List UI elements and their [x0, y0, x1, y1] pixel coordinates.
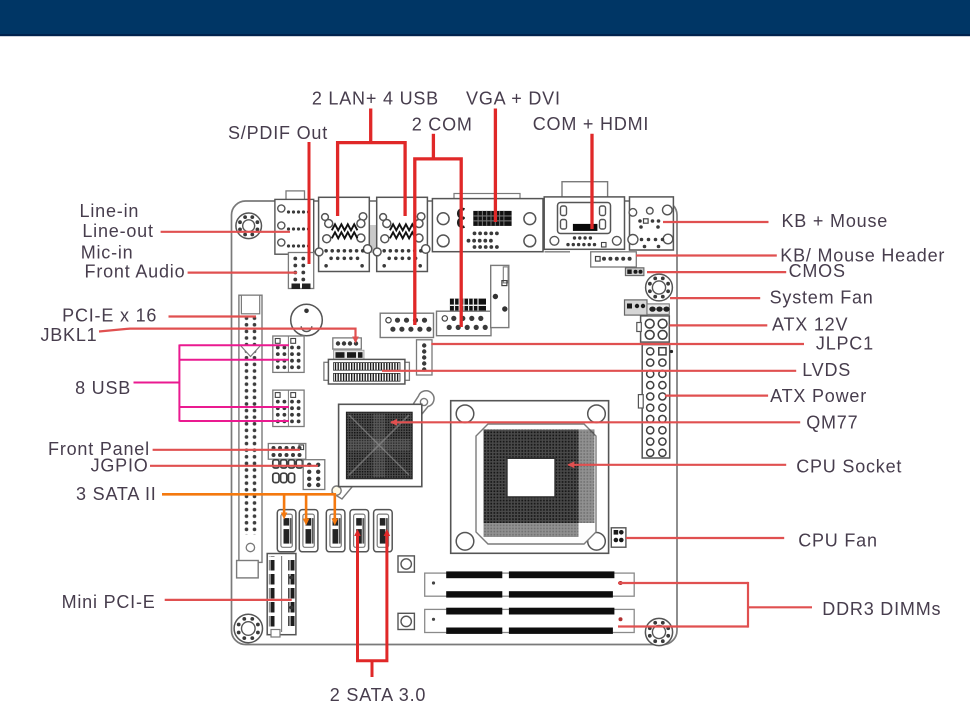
- leader: System Fan: [670, 297, 760, 299]
- mini PCI-E slot: [267, 554, 296, 638]
- svg-text:2 LAN+ 4 USB: 2 LAN+ 4 USB: [312, 89, 439, 109]
- leader: 8 USB bracket: [134, 382, 180, 384]
- SATA port 5: [374, 510, 393, 552]
- COM1 header: [380, 313, 433, 337]
- COM+HDMI connector: [544, 182, 624, 250]
- CPU fan header: [611, 528, 626, 547]
- SATA port 2: [299, 510, 318, 552]
- leader: VGA + DVI: [494, 109, 497, 223]
- LAN+USB divider: [370, 225, 377, 253]
- CPU socket: [451, 401, 609, 554]
- svg-text:ATX Power: ATX Power: [770, 386, 867, 406]
- board outline: [232, 201, 678, 645]
- svg-text:JGPIO: JGPIO: [91, 455, 149, 475]
- PCI-E x16 slot: [237, 295, 262, 578]
- svg-text:8 USB: 8 USB: [75, 378, 131, 398]
- JLPC1 header: [417, 340, 433, 375]
- leader: COM + HDMI: [590, 134, 593, 229]
- leader: DDR3 DIMMs bracket: [618, 582, 748, 584]
- leader: S/PDIF Out: [308, 142, 311, 264]
- audio jack stack: [275, 191, 314, 254]
- leader: KB/ Mouse Header: [636, 254, 777, 256]
- leader: Front Audio: [188, 272, 297, 274]
- KB+Mouse connector: [628, 197, 674, 250]
- leader: Mini PCI-E: [165, 599, 292, 601]
- LAN+USB stack 1: [315, 197, 372, 271]
- svg-text:CPU Socket: CPU Socket: [796, 456, 902, 476]
- svg-text:LVDS: LVDS: [802, 360, 851, 380]
- leader: ATX 12V: [670, 324, 768, 326]
- leader: CPU Fan: [626, 537, 784, 539]
- DIMM slot 1: [425, 571, 635, 597]
- svg-text:KB + Mouse: KB + Mouse: [782, 211, 889, 231]
- svg-text:VGA + DVI: VGA + DVI: [466, 89, 561, 109]
- svg-text:COM + HDMI: COM + HDMI: [533, 114, 650, 134]
- QM77 chip: [332, 391, 434, 499]
- SATA port 3: [326, 510, 345, 552]
- header bar: [0, 0, 970, 36]
- svg-text:System Fan: System Fan: [770, 287, 874, 307]
- USB header pair 1: [273, 336, 304, 372]
- buzzer: [291, 304, 323, 336]
- mounting hole bottom-left: [234, 614, 262, 642]
- svg-text:3 SATA II: 3 SATA II: [76, 484, 157, 504]
- mounting hole top-left: [236, 213, 262, 239]
- leader: 3 SATA II: [162, 494, 335, 520]
- svg-text:Front Audio: Front Audio: [85, 262, 186, 282]
- VGA connector: [432, 194, 543, 252]
- JBKL1 header: [333, 338, 364, 360]
- front panel header: [268, 444, 306, 460]
- SATA port 4: [350, 510, 369, 552]
- leader: JLPC1: [431, 343, 804, 345]
- svg-text:JLPC1: JLPC1: [816, 333, 874, 353]
- vertical IC block: [491, 265, 509, 327]
- leader: KB + Mouse: [663, 221, 769, 223]
- svg-text:PCI-E x 16: PCI-E x 16: [62, 306, 157, 326]
- svg-text:Line-out: Line-out: [82, 221, 153, 241]
- leader: 2 COM bracket: [432, 134, 435, 159]
- leader: 2 SATA 3.0 bracket: [358, 534, 387, 661]
- svg-text:S/PDIF Out: S/PDIF Out: [228, 123, 328, 143]
- DIMM slot 2: [425, 608, 635, 634]
- SATA port 1: [277, 510, 296, 552]
- ATX power connector: [638, 345, 673, 458]
- leader: CPU Socket: [568, 464, 786, 466]
- leader: ATX Power: [665, 395, 768, 397]
- CMOS jumper: [625, 268, 644, 276]
- system fan header: [625, 300, 670, 315]
- mounting hole top-right: [646, 274, 673, 301]
- svg-text:CPU Fan: CPU Fan: [798, 530, 878, 550]
- svg-text:Line-in: Line-in: [80, 201, 140, 221]
- leader: LVDS: [382, 370, 796, 372]
- KB/Mouse header: [591, 252, 637, 267]
- COM2 header: [437, 299, 492, 336]
- leader: QM77: [391, 421, 800, 423]
- COM+HDMI foot: [545, 251, 571, 253]
- svg-text:CMOS: CMOS: [789, 261, 846, 281]
- svg-text:Mini PCI-E: Mini PCI-E: [62, 592, 156, 612]
- front audio header: [288, 253, 313, 290]
- mount post 2: [398, 613, 414, 629]
- svg-text:JBKL1: JBKL1: [40, 325, 97, 345]
- svg-text:2 COM: 2 COM: [412, 115, 473, 135]
- svg-text:Mic-in: Mic-in: [81, 243, 134, 263]
- mounting hole bottom-right: [645, 618, 672, 645]
- JGPIO header: [273, 460, 325, 490]
- leader: PCI-E x 16: [169, 315, 257, 317]
- USB header pair 2: [273, 390, 304, 426]
- svg-text:DDR3 DIMMs: DDR3 DIMMs: [822, 599, 941, 619]
- LVDS connector: [324, 359, 410, 384]
- svg-text:QM77: QM77: [806, 412, 858, 432]
- leader: CMOS: [647, 271, 786, 273]
- mount post 1: [398, 556, 414, 572]
- LAN+USB stack 2: [373, 197, 430, 271]
- leader: Front Panel: [153, 449, 300, 451]
- svg-text:2 SATA 3.0: 2 SATA 3.0: [330, 685, 426, 705]
- leader: 2 LAN+ 4 USB bracket: [369, 109, 372, 143]
- ATX 12V connector: [637, 316, 670, 342]
- leader: JGPIO: [150, 465, 318, 467]
- leader: JBKL1: [99, 329, 356, 338]
- svg-text:ATX 12V: ATX 12V: [772, 314, 848, 334]
- leader: Line-out: [161, 231, 290, 233]
